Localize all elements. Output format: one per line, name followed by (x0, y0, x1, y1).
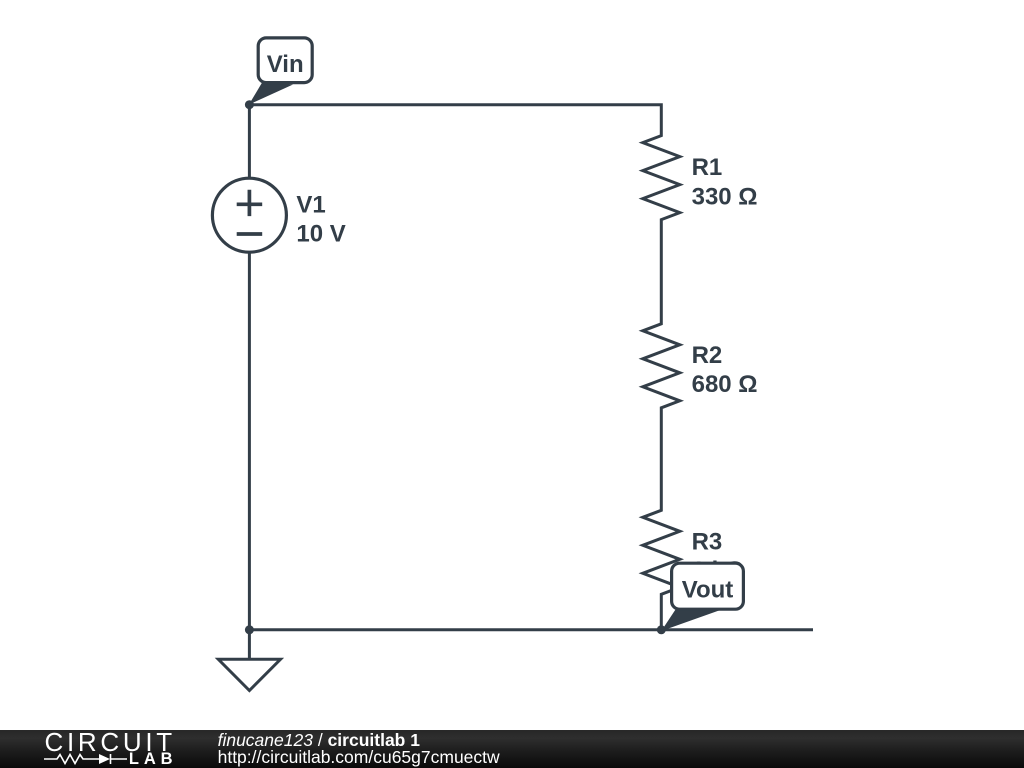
svg-text:V1: V1 (296, 192, 325, 219)
svg-text:Vout: Vout (682, 577, 734, 604)
svg-text:R3: R3 (692, 529, 723, 556)
svg-text:Vin: Vin (267, 51, 304, 78)
svg-text:680 Ω: 680 Ω (692, 371, 758, 398)
svg-text:330 Ω: 330 Ω (692, 184, 758, 211)
svg-text:10 V: 10 V (296, 220, 345, 247)
svg-text:R2: R2 (692, 342, 723, 369)
svg-text:R1: R1 (692, 154, 723, 181)
